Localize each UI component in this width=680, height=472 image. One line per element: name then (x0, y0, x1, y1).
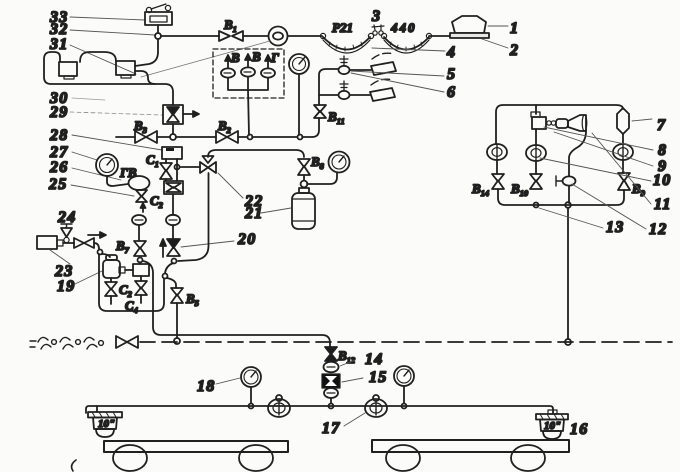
svg-text:13: 13 (606, 219, 624, 236)
leader 14 (340, 360, 355, 366)
stem to node (330, 398, 332, 403)
xbox unit (164, 181, 183, 194)
node A (172, 259, 177, 264)
filter 19 (103, 255, 120, 278)
arrow up (162, 244, 164, 257)
valve 12 (556, 176, 576, 186)
node junction B3/B2 line (170, 134, 176, 140)
oiler 6 (339, 81, 350, 99)
riser to oiler 5 (319, 69, 338, 105)
leader 20 (181, 241, 234, 247)
gauge B8 (329, 152, 350, 173)
svg-text:31: 31 (49, 36, 68, 53)
node below dashed box (248, 135, 253, 140)
wire to B11 riser (302, 118, 319, 137)
flow indicator (324, 388, 338, 398)
leader 5 (351, 71, 444, 76)
valve on supply (74, 238, 84, 248)
svg-text:С2: С2 (150, 193, 164, 210)
valve on brake pipe (116, 336, 127, 348)
node on test pipe (329, 404, 334, 409)
dashed brake pipe (140, 341, 672, 343)
svg-text:ГВ: ГВ (119, 165, 137, 180)
valve C2 lower (110, 278, 112, 282)
svg-text:26: 26 (49, 159, 68, 176)
node to valve22 (175, 165, 180, 170)
leader 22 (218, 173, 243, 198)
leader 4 (372, 48, 445, 51)
svg-text:20: 20 (237, 231, 256, 248)
wire xbox down (172, 194, 174, 215)
wire node to valve 22 (180, 166, 200, 168)
node gauge stem (298, 135, 303, 140)
brake cylinder right 16 (536, 410, 568, 439)
valve C1 (160, 163, 172, 171)
leader 10 (540, 158, 651, 181)
bypass loop (99, 254, 164, 311)
ejector outlet to valve 12 (569, 131, 586, 176)
oiler 5 (339, 56, 350, 74)
phi meter mid (526, 145, 546, 161)
wire left end (116, 136, 135, 138)
branch to oiler 6 (319, 94, 338, 96)
svg-text:10": 10" (98, 418, 115, 430)
svg-text:4: 4 (446, 44, 456, 61)
car right (372, 440, 569, 452)
bracket wires (228, 78, 268, 90)
svg-text:В1: В1 (223, 17, 237, 34)
svg-text:7: 7 (657, 117, 666, 134)
valve B2 (216, 131, 227, 143)
node mid (534, 203, 539, 208)
flow indicator (166, 215, 180, 225)
svg-text:В7: В7 (115, 238, 130, 255)
wire node to filter (102, 254, 110, 257)
wire port to gauge (307, 173, 337, 184)
svg-text:12: 12 (649, 221, 667, 238)
stub to regulator (119, 267, 125, 273)
wire node to valve B1 (161, 35, 219, 37)
funnel 1 (452, 16, 486, 33)
valve 22 three-way (200, 156, 216, 173)
hose 440 (381, 33, 431, 53)
wire to B7 (138, 225, 140, 241)
svg-text:В: В (251, 49, 261, 64)
drop pipe to brake line (567, 208, 569, 339)
wire node A to node B (165, 263, 173, 273)
coupling head (269, 27, 288, 46)
brake shoe 6 (370, 88, 395, 101)
svg-text:14: 14 (365, 351, 383, 368)
wire box 31b to loop (135, 71, 155, 84)
svg-text:440: 440 (390, 20, 417, 35)
flow unit phi right (365, 395, 387, 417)
phi meter left (487, 144, 507, 160)
node on main line (174, 338, 180, 344)
svg-text:21: 21 (244, 205, 263, 222)
wire node to B2 (176, 136, 216, 138)
wire B2 to node (238, 136, 247, 138)
valve cone open (167, 114, 179, 122)
svg-text:29: 29 (49, 104, 68, 121)
wire B8 to port (303, 175, 305, 180)
top rail (496, 105, 623, 144)
svg-text:С1: С1 (146, 152, 159, 169)
connector 3 (372, 25, 384, 35)
leader 2 (482, 39, 508, 48)
hose squiggles (30, 337, 103, 349)
tank 21 (292, 193, 315, 229)
supply wire (63, 242, 74, 244)
leader 30 (72, 98, 105, 100)
svg-text:В: В (230, 50, 240, 65)
node 32 (155, 33, 161, 39)
leader 13 (539, 208, 603, 228)
valve C4 (140, 276, 142, 281)
wire B5 to main line (176, 303, 178, 338)
leader 23 (50, 250, 70, 264)
svg-text:В5: В5 (185, 291, 200, 308)
leader 25 (71, 185, 134, 196)
leader 8 (544, 127, 653, 150)
arrow up small (142, 206, 144, 212)
wire switch to node (157, 25, 159, 33)
wire capsule down (622, 134, 624, 144)
node B (163, 274, 168, 279)
svg-text:19: 19 (57, 278, 75, 295)
leader 1 (488, 25, 508, 27)
wire B1 to coupling (243, 35, 268, 37)
svg-text:В12: В12 (337, 348, 356, 365)
flow indicator (324, 362, 339, 373)
box 31a (59, 62, 77, 79)
bottom rail (498, 189, 624, 205)
branch to B5 (167, 278, 176, 288)
svg-text:1: 1 (510, 20, 519, 37)
svg-text:В2: В2 (217, 118, 232, 135)
valve C2 (136, 190, 147, 197)
wheel (511, 445, 545, 471)
svg-text:15: 15 (369, 369, 387, 386)
svg-text:Г: Г (270, 50, 279, 65)
leader to coupling (141, 41, 270, 77)
box 31b (116, 61, 135, 78)
svg-text:5: 5 (447, 66, 456, 83)
wire to check valve (172, 225, 174, 239)
indicator B left (221, 55, 235, 78)
stub to tester 8 (535, 105, 537, 114)
leader 32 (70, 30, 155, 35)
leader 31 (70, 45, 136, 74)
leader 28 (72, 135, 162, 150)
wheel (113, 445, 147, 471)
capsule 7 (617, 108, 629, 134)
valve cone filled (167, 107, 179, 115)
valve B7 (134, 241, 146, 249)
leader 12 (572, 184, 646, 229)
svg-text:2: 2 (509, 42, 519, 59)
svg-text:В10: В10 (510, 181, 529, 198)
valve B9 (618, 173, 630, 181)
flow unit phi left (268, 395, 290, 417)
wire bracket to node (248, 77, 249, 135)
svg-text:10: 10 (653, 172, 671, 189)
switch 33 (145, 4, 172, 25)
svg-text:С2: С2 (119, 282, 133, 299)
arrow right (88, 234, 100, 236)
leader 6 (351, 73, 444, 92)
svg-text:8: 8 (658, 142, 667, 159)
leader 33 (70, 17, 145, 20)
valve B14 (492, 174, 504, 182)
svg-text:25: 25 (48, 176, 67, 193)
arrow out (183, 113, 193, 115)
check valve 20 (167, 239, 180, 248)
svg-text:17: 17 (322, 420, 340, 437)
leader 9 (554, 132, 653, 166)
valve B11 (314, 105, 326, 112)
valve B8 (298, 159, 310, 167)
gauge stem (298, 74, 300, 135)
wire node into regulator (139, 262, 141, 264)
wire coupling to hose (288, 35, 322, 37)
wire node down to box 31b (135, 39, 158, 66)
wire C1 to xbox (165, 179, 167, 181)
hose P21 (320, 33, 373, 53)
leader 19 (75, 271, 102, 284)
wire corner to node (94, 243, 99, 249)
svg-text:В11: В11 (327, 109, 345, 126)
valve B3 (135, 131, 146, 143)
separator GV (129, 176, 150, 190)
svg-text:6: 6 (447, 84, 456, 101)
dashed arc 5 (372, 53, 394, 59)
stub left cylinder (96, 406, 98, 412)
valve B10 (530, 174, 542, 182)
wheel (386, 445, 420, 471)
wire loop to valve box 29 (44, 52, 173, 105)
valve 24 (61, 224, 72, 243)
leader 18 (216, 378, 240, 384)
gauge 18 (241, 367, 261, 387)
brake cylinder left (88, 412, 122, 437)
gauge right (394, 366, 414, 386)
svg-text:В3: В3 (133, 118, 148, 135)
regulator box (133, 264, 149, 276)
dashed box (213, 49, 284, 98)
box 28 (162, 147, 182, 159)
node drop (565, 202, 571, 208)
port node (301, 181, 308, 188)
node right drop (565, 339, 571, 345)
svg-text:10": 10" (544, 420, 561, 432)
arc to B8 (208, 150, 304, 157)
leader 21 (261, 208, 291, 213)
leader 29 (70, 112, 162, 115)
valve B5 (171, 288, 183, 296)
valve B12 (325, 347, 337, 355)
leader 26 (72, 168, 121, 180)
svg-text:18: 18 (197, 378, 215, 395)
wire hump between boxes (80, 52, 116, 62)
phi meter right (613, 144, 633, 160)
wheel (239, 445, 273, 471)
wire box29 to junction (172, 124, 174, 134)
svg-text:16: 16 (570, 421, 588, 438)
wire tester to phi (535, 129, 537, 145)
dashed arc 6 (371, 79, 393, 85)
flange 2 (450, 33, 489, 38)
wire oiler6 to box6 (350, 94, 370, 96)
wire oiler5 to box5 (350, 69, 371, 71)
wire valve12 to rail (568, 186, 570, 203)
svg-text:11: 11 (654, 196, 672, 213)
svg-text:Р21: Р21 (332, 20, 353, 35)
gauge over box (289, 54, 309, 74)
tank neck (299, 188, 309, 193)
leader 17 (344, 413, 365, 426)
wire hose to funnel (429, 35, 452, 37)
node supply (98, 250, 103, 255)
valve B1 (219, 31, 230, 41)
box 23 (37, 236, 57, 249)
stray mark (72, 460, 76, 471)
car left (104, 441, 288, 452)
wire gauge to separator (107, 176, 128, 186)
svg-text:28: 28 (49, 127, 68, 144)
box 29 (163, 105, 183, 124)
svg-text:С4: С4 (125, 298, 138, 315)
brake branch from B7 to B12 (143, 261, 330, 347)
test pipe (86, 406, 553, 413)
node below B7 (138, 258, 143, 263)
leader 11 (592, 133, 651, 204)
wire B3 to node (157, 136, 170, 138)
svg-text:В14: В14 (471, 181, 489, 198)
indicator B mid (241, 54, 255, 77)
wire box28 left branch (165, 159, 167, 163)
svg-text:3: 3 (371, 8, 381, 25)
wire valve22 down to node A (178, 173, 209, 261)
brake shoe 5 (371, 62, 396, 75)
indicator G right (261, 55, 275, 78)
wire box28 right branch (176, 159, 178, 181)
leader 7 (632, 119, 652, 121)
unit 15 black (322, 374, 340, 388)
wires phi to valves (497, 160, 623, 174)
wire node to gauge node (252, 136, 297, 138)
leader 15 (342, 378, 363, 382)
gauge 27 (96, 154, 118, 176)
tester 8 (531, 112, 587, 131)
flow indicator (132, 215, 146, 225)
svg-text:В8: В8 (310, 154, 325, 171)
leader 27 (72, 152, 97, 160)
